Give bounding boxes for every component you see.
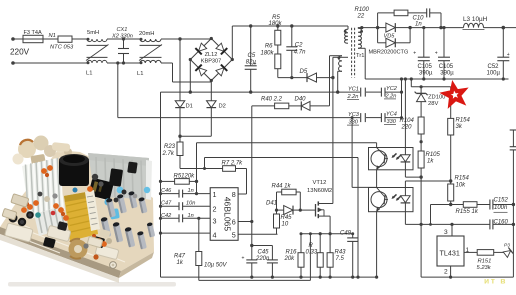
photo: cyan capacitors: [109, 208, 120, 219]
svg-text:R105: R105: [426, 152, 441, 158]
resistor R44 1k: [276, 192, 278, 210]
svg-text:8: 8: [232, 190, 236, 199]
svg-text:1n: 1n: [415, 22, 422, 28]
svg-text:R104: R104: [400, 118, 415, 124]
wire: R7 left riser to opto collector line: [204, 158, 206, 169]
wire: zener row from ground rail: [410, 79, 412, 87]
wire: R7 right to pin8: [236, 168, 247, 170]
svg-text:D1: D1: [186, 104, 193, 110]
svg-text:R154: R154: [456, 118, 471, 124]
Tr1 secondary phase dot: [360, 30, 363, 33]
thermistor N1 NTC 053: [58, 36, 72, 42]
wire: pin5 row: [238, 233, 277, 235]
photo: aluminium plate heatsink: [88, 153, 149, 199]
svg-text:D2: D2: [219, 104, 226, 110]
IC U1 46BL065: [210, 188, 238, 241]
svg-text:C45: C45: [258, 250, 270, 256]
svg-text:+: +: [507, 52, 510, 58]
wire: opto1 LED cathode row: [404, 170, 406, 177]
bridge diode (left-top edge): [195, 43, 207, 55]
resistor R23 2.7k: [179, 136, 181, 142]
photo: white heatsink left: [22, 158, 65, 219]
svg-text:D41: D41: [266, 201, 277, 207]
svg-text:20k: 20k: [284, 256, 296, 262]
svg-text:P3: P3: [504, 243, 510, 249]
wire: source node row: [301, 233, 353, 235]
Tr1 aux phase dot: [338, 56, 341, 59]
svg-text:100µ: 100µ: [487, 71, 501, 77]
svg-text:R: R: [309, 243, 314, 249]
inductor L1 choke2 top winding 20mH: [140, 39, 161, 42]
resistor R47 1k: [196, 252, 202, 266]
wire: bottom AC input line: [13, 62, 87, 64]
wire: R154 3k down to opto2 anode line: [450, 135, 452, 181]
svg-text:1n: 1n: [188, 213, 194, 219]
resistor R155 1k: [463, 202, 477, 208]
Tr1 secondary winding: [358, 28, 361, 48]
svg-text:22: 22: [357, 14, 365, 20]
svg-text:YC1: YC1: [348, 87, 359, 93]
photo: input chokes: [18, 140, 36, 158]
svg-text:5mH: 5mH: [87, 30, 99, 36]
node: output rail start: [408, 26, 411, 29]
resistor R6 180k: [275, 54, 281, 69]
photo: toroid inductor: [69, 240, 88, 259]
wire ZD100 to R104: [420, 102, 422, 117]
choke2 bottom winding: [140, 56, 162, 58]
svg-text:X2 330n: X2 330n: [111, 34, 133, 40]
wire: gate line: [300, 209, 315, 211]
wire: opto2 LED anode row: [404, 181, 406, 188]
wire: opto2 emitter to primary rail end: [376, 212, 378, 277]
wire: R105 column down to secondary ground rail: [420, 177, 422, 277]
wire: opto2 LED cathode / TL431 ref row: [404, 212, 406, 225]
svg-text:C52: C52: [488, 64, 500, 70]
svg-text:R100: R100: [355, 7, 370, 13]
transformer Tr1 core: [351, 28, 353, 78]
optocoupler U3 (lower): [369, 188, 414, 212]
Tr1 aux winding: [339, 56, 342, 72]
wire: clamp node row: [278, 77, 307, 79]
diode D1: [179, 39, 181, 101]
resistor R154 10k: [450, 181, 452, 184]
svg-text:C47: C47: [161, 201, 172, 207]
photo: large black capacitor: [59, 158, 89, 186]
wire: earth/Y row: [118, 117, 360, 119]
node: Vcc caps: [250, 244, 253, 247]
svg-text:KBP307: KBP307: [201, 59, 222, 65]
svg-text:220V: 220V: [10, 48, 30, 57]
svg-text:YC2: YC2: [386, 86, 398, 92]
svg-text:+: +: [254, 62, 257, 68]
svg-text:7.5: 7.5: [336, 256, 345, 262]
node: secondary top / VD5 anodes: [376, 26, 379, 29]
inductor L1 choke1 bottom winding: [87, 56, 108, 58]
svg-text:20mH: 20mH: [139, 31, 154, 37]
wire: feedback vertical to L_A: [196, 143, 198, 182]
photo: orange components: [21, 207, 27, 213]
svg-text:C2: C2: [295, 43, 303, 49]
svg-text:1: 1: [213, 190, 217, 199]
Tr1 primary winding: [345, 29, 348, 43]
inductor L3 10uH: [464, 23, 484, 27]
wire: left ground vertical: [160, 92, 162, 277]
diode D5: [307, 73, 317, 82]
svg-text:10µ 50V: 10µ 50V: [204, 263, 227, 269]
wire: primary bottom lead to drain node: [333, 56, 348, 58]
svg-text:TL431: TL431: [440, 249, 460, 258]
capacitor C42 1n / pin3 row: [161, 217, 180, 219]
wire: row 204.5 corner down: [430, 205, 432, 225]
node: X2 junction: [116, 61, 119, 64]
node: opto2 anode / R154 junction: [449, 179, 452, 182]
capacitor C152 100n: [489, 200, 491, 210]
resistor R5 180k: [275, 30, 281, 45]
wire: pin6 row: [238, 221, 252, 223]
svg-text:L3 10µH: L3 10µH: [463, 16, 488, 23]
node: AC input bottom terminal: [11, 61, 15, 65]
diode VD5 lower half: [377, 28, 379, 43]
svg-text:10n: 10n: [186, 201, 195, 207]
svg-text:1n: 1n: [188, 188, 194, 194]
node: D1 D2 cathodes: [178, 135, 181, 138]
svg-text:R47: R47: [174, 254, 186, 260]
svg-text:390µ: 390µ: [440, 71, 454, 77]
capacitor C2 4.7n: [291, 26, 293, 47]
diode D40: [289, 105, 302, 107]
capacitor C46 1n / pin1 row: [161, 193, 180, 195]
svg-text:220: 220: [401, 125, 413, 131]
wire: primary ground rail: [161, 91, 361, 93]
capacitor CX1 X2 330n: [123, 39, 125, 49]
diode VD5 upper half: [378, 27, 386, 29]
svg-text:L1: L1: [86, 71, 92, 77]
bridge diode (bottom-right edge): [215, 65, 227, 77]
svg-text:1k: 1k: [177, 260, 184, 266]
svg-text:2: 2: [444, 269, 448, 276]
svg-text:+: +: [413, 51, 416, 57]
svg-text:C105: C105: [439, 64, 454, 70]
capacitor C105 390u: [423, 28, 425, 58]
resistor R45 10: [276, 210, 278, 214]
svg-text:Tr1: Tr1: [356, 53, 364, 59]
svg-text:0.33: 0.33: [306, 250, 318, 256]
node: drain/clamp: [331, 76, 334, 79]
capacitor YC4 330: [380, 113, 382, 122]
wire: primary + rail: [232, 25, 348, 27]
node: AC input top terminal: [11, 37, 15, 41]
svg-text:3k: 3k: [456, 124, 463, 130]
svg-text:10k: 10k: [456, 183, 467, 189]
optocoupler U2 (upper): [369, 148, 414, 170]
svg-text:2.7k: 2.7k: [162, 151, 175, 157]
wire: AC2 to bridge bottom corner: [172, 63, 174, 82]
Tr1 primary phase dot: [344, 30, 347, 33]
svg-text:6: 6: [232, 218, 236, 227]
svg-text:L1: L1: [137, 71, 143, 77]
capacitor C45 220n: [252, 245, 273, 247]
svg-text:C5: C5: [248, 53, 256, 59]
fuse F3 T4A: [23, 35, 43, 42]
svg-text:C105: C105: [418, 64, 433, 70]
svg-text:10: 10: [282, 222, 289, 228]
resistor R100 22: [377, 13, 379, 28]
svg-text:R155 1k: R155 1k: [456, 209, 479, 215]
bridge rectifier ZL12 KBP307 diamond: [190, 39, 232, 81]
svg-text:MBR20200CTG: MBR20200CTG: [369, 49, 409, 55]
svg-text:28V: 28V: [428, 101, 438, 107]
node C5+: [249, 24, 252, 27]
svg-text:R6: R6: [265, 44, 273, 50]
svg-text:YC3: YC3: [348, 112, 360, 118]
capacitor 10u 50V electrolytic: [251, 246, 253, 260]
capacitor C105 390u: [443, 28, 445, 58]
choke2 coupling diagonal: [139, 45, 162, 61]
resistor R7 2.7k: [205, 168, 223, 170]
svg-text:5.23k: 5.23k: [477, 265, 492, 271]
svg-text:C42: C42: [161, 213, 172, 219]
svg-text:1: 1: [466, 247, 470, 254]
choke1 coupling diagonal: [86, 45, 109, 61]
svg-text:C152: C152: [494, 198, 509, 204]
svg-text:R44 1k: R44 1k: [272, 183, 292, 189]
svg-text:VT12: VT12: [313, 180, 327, 186]
wire: R7 line down to primary rail: [357, 158, 359, 278]
node: bridge minus on ground rail: [189, 90, 192, 93]
wire: opto1 emitter to opto2 collector: [376, 170, 378, 188]
svg-text:CX1: CX1: [117, 27, 128, 33]
photo: yellow transformer: [64, 191, 98, 241]
wire: R155/C152 row: [431, 204, 464, 206]
svg-text:C46: C46: [161, 188, 172, 194]
svg-text:4.7n: 4.7n: [294, 50, 306, 56]
svg-text:5: 5: [232, 231, 236, 240]
node R5 top: [276, 24, 279, 27]
wire: R23 bottom to R7 row: [179, 156, 181, 169]
resistor R105 1k: [420, 134, 422, 151]
resistor R16 20k: [300, 234, 302, 253]
svg-text:390µ: 390µ: [419, 71, 433, 77]
inductor L1 choke1 top winding 5mH: [87, 39, 107, 42]
photo: film capacitors: [5, 223, 33, 242]
svg-text:R43: R43: [335, 250, 347, 256]
wire: pin4 row: [161, 232, 211, 234]
wire: secondary bottom lead to secondary ground: [357, 47, 359, 49]
capacitor YC3 330: [360, 113, 362, 122]
svg-text:YC4: YC4: [386, 111, 397, 117]
svg-text:1k: 1k: [427, 159, 434, 165]
capacitor C160: [489, 219, 491, 229]
resistor R151 5.23k: [477, 250, 494, 256]
svg-text:3: 3: [444, 229, 448, 236]
wire: bridge - down to ground rail: [189, 60, 191, 93]
svg-text:R45: R45: [281, 215, 293, 221]
svg-text:13N60M2: 13N60M2: [307, 188, 332, 194]
svg-text:NTC 053: NTC 053: [50, 45, 74, 51]
svg-text:C160: C160: [494, 220, 509, 226]
wire: Y-cap return riser: [401, 92, 403, 118]
wire: earth row link to opto junction: [351, 118, 353, 188]
svg-text:+: +: [435, 51, 438, 57]
svg-text:100n: 100n: [494, 205, 508, 211]
photo: electrolytic capacitors: [106, 198, 116, 218]
svg-text:3: 3: [213, 217, 217, 226]
svg-text:ZD100: ZD100: [428, 94, 445, 100]
resistor R43 7.5: [329, 234, 331, 253]
node: pin6 Vcc: [250, 220, 253, 223]
wire: bridge + output up to rail: [231, 26, 233, 60]
node: AC1 junction to D1: [178, 37, 181, 40]
svg-text:VD5: VD5: [384, 33, 396, 39]
wire: opto1 LED anode from secondary ground: [404, 79, 406, 148]
wire: pin3 sense vertical through R47: [198, 218, 200, 251]
bridge diode (left-bottom edge): [195, 65, 207, 77]
svg-text:N1: N1: [49, 33, 56, 39]
wire: +28V output rail: [410, 27, 463, 29]
capacitor YC1 2.2n: [360, 88, 362, 97]
photo: PCB module: [0, 150, 154, 271]
wire: secondary top lead: [357, 27, 359, 30]
svg-text:R151: R151: [478, 259, 492, 265]
svg-text:4: 4: [213, 231, 217, 240]
svg-text:D40: D40: [295, 96, 307, 102]
svg-text:2: 2: [213, 204, 217, 213]
node C2 top: [290, 24, 293, 27]
zener ZD100 28V: [420, 87, 422, 94]
capacitor YC2 2.2n: [380, 88, 382, 97]
svg-text:180k: 180k: [260, 51, 274, 57]
wire: aux top lead: [330, 55, 343, 57]
wire: Vcc feed line: [251, 106, 253, 246]
svg-text:+: +: [242, 256, 245, 262]
resistor R51 20k: [161, 180, 175, 182]
wire: aux bottom lead to ground rail: [338, 70, 342, 72]
svg-text:C49: C49: [340, 231, 352, 237]
IC TL431: [437, 236, 464, 266]
svg-text:180k: 180k: [268, 21, 282, 27]
capacitor C52 100u: [502, 28, 504, 58]
svg-text:220n: 220n: [255, 256, 270, 262]
svg-text:ZL12: ZL12: [205, 52, 218, 58]
node: R155 row: [449, 203, 452, 206]
svg-text:R16: R16: [286, 250, 298, 256]
wire: top AC input line: [13, 38, 23, 40]
marker: red star: [444, 84, 466, 105]
svg-text:F3 T4A: F3 T4A: [24, 30, 43, 36]
svg-text:R154: R154: [455, 175, 470, 181]
svg-text:R23: R23: [164, 144, 176, 150]
resistor R104 220: [418, 117, 424, 134]
resistor R40 2.2: [252, 105, 275, 107]
capacitor C5 82u: [250, 26, 252, 66]
svg-text:R40 2.2: R40 2.2: [261, 96, 283, 102]
svg-text:R5120k: R5120k: [174, 174, 196, 180]
capacitor C47 10n / pin2 row: [161, 205, 180, 207]
svg-text:D5: D5: [300, 69, 308, 75]
bridge diode (top-right edge): [215, 43, 227, 55]
resistor R154 3k: [450, 87, 452, 119]
resistor R 0.33: [319, 234, 321, 253]
capacitor C10 1n: [408, 12, 427, 14]
wire: output sense vertical with series cap: [510, 129, 516, 131]
wire: earth line from bottom input down: [117, 63, 119, 118]
svg-text:ит в: ит в: [484, 276, 507, 286]
diode D2: [210, 81, 212, 101]
